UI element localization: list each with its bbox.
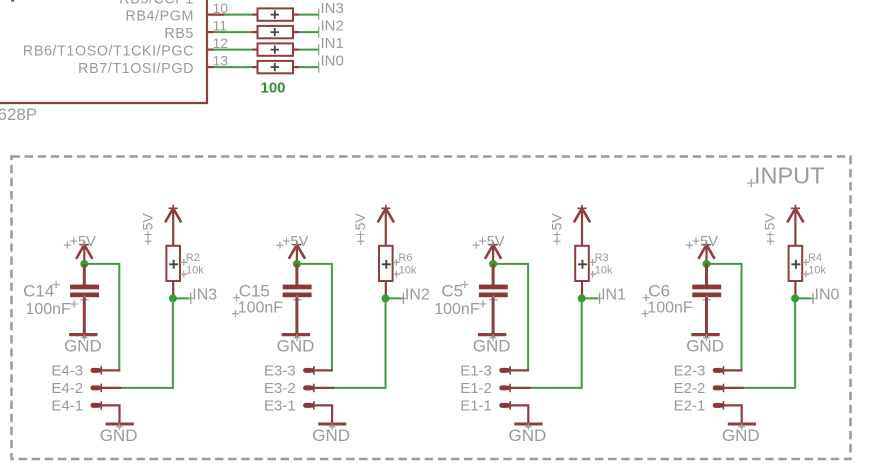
R2 name label	[180, 252, 199, 266]
IC pin name RB5	[164, 26, 194, 42]
connector pin E3-1	[303, 401, 317, 410]
svg-text:RB6/T1OSO/T1CKI/PGC: RB6/T1OSO/T1CKI/PGC	[23, 43, 194, 59]
capacitor C5 top lead	[492, 264, 495, 285]
+5V label text (over C14)	[64, 234, 96, 250]
svg-text:E3-2: E3-2	[264, 380, 296, 397]
connector pin label E1-3	[460, 363, 492, 380]
IC pin stub 13	[207, 66, 214, 68]
resistor lead right row 3	[293, 48, 299, 50]
capacitor C6 bottom lead	[705, 297, 708, 338]
svg-text:10k: 10k	[808, 264, 826, 276]
+5V supply symbol (over C14)	[76, 241, 92, 264]
svg-text:IN1: IN1	[321, 35, 344, 52]
svg-text:GND: GND	[312, 426, 350, 445]
connector pin label E2-3	[674, 363, 706, 380]
svg-text:RB7/T1OSI/PGD: RB7/T1OSI/PGD	[78, 61, 194, 77]
svg-text:C6: C6	[648, 281, 670, 300]
net label IN0	[815, 287, 840, 304]
ground label under E2-1	[722, 426, 760, 445]
svg-text:IN0: IN0	[815, 287, 840, 304]
wire stub to label IN3	[299, 14, 319, 16]
resistor lead right row 2	[293, 31, 299, 33]
capacitor C6 plates	[692, 285, 721, 298]
+5V label text (over C15)	[277, 234, 309, 250]
R4 top lead	[794, 208, 796, 245]
pin number 13	[213, 53, 229, 69]
+5V supply symbol (over C15)	[289, 241, 305, 264]
svg-text:GND: GND	[473, 336, 511, 355]
capacitor C15 top lead	[295, 264, 298, 285]
svg-text:GND: GND	[509, 426, 547, 445]
svg-text:IN3: IN3	[321, 0, 344, 17]
svg-text:IN1: IN1	[601, 287, 626, 304]
connector pin E1-2	[499, 384, 513, 393]
IC pin stub 10	[207, 14, 225, 16]
svg-text:100nF: 100nF	[238, 300, 284, 317]
svg-text:E2-3: E2-3	[674, 363, 706, 380]
net label tick IN2	[401, 293, 406, 304]
+5V label text rotated (over R4)	[762, 213, 778, 245]
svg-text:100: 100	[261, 80, 286, 97]
C15 value 100nF	[232, 300, 283, 318]
+5V label text rotated (over R3)	[548, 213, 564, 245]
IC pin name RB3/CCP1	[119, 0, 194, 7]
svg-text:C5: C5	[441, 282, 463, 301]
svg-text:R3: R3	[595, 252, 609, 264]
svg-text:E3-1: E3-1	[264, 398, 296, 415]
+5V label text (over C6)	[686, 234, 718, 250]
svg-text:C14: C14	[23, 282, 54, 301]
net wire IN1 stub	[582, 297, 600, 299]
wire IN0 junction to E2-2	[743, 298, 795, 388]
svg-text:+5V: +5V	[692, 234, 719, 250]
connector pin label E3-1	[264, 398, 296, 415]
resistor lead right row 1	[293, 14, 299, 16]
R3 value 10k	[589, 264, 613, 277]
IC U1 name 628P (partially cut)	[0, 105, 37, 124]
connector pin label E1-2	[460, 380, 492, 397]
pin E2-2 lead	[724, 387, 744, 389]
capacitor C6 top lead	[705, 264, 708, 285]
INPUT title	[754, 162, 825, 188]
INPUT title origin cross	[747, 179, 755, 187]
wire net IN3 from IC to resistor	[225, 14, 253, 16]
connector pin label E2-2	[674, 380, 706, 397]
svg-text:10k: 10k	[399, 264, 417, 276]
+5V supply symbol (over R2)	[165, 205, 181, 223]
net label tick IN3	[188, 293, 193, 304]
resistor 100 ohm body row 4	[258, 61, 294, 73]
screen artifact dot top-left	[11, 0, 14, 2]
pin E1-2 lead	[510, 387, 530, 389]
R3 top lead	[581, 208, 583, 245]
IC pin name RB4/PGM	[125, 8, 194, 24]
+5V supply symbol (over C6)	[698, 241, 714, 264]
capacitor C14 bottom lead	[83, 297, 86, 338]
C15 name label	[233, 281, 270, 301]
R4 value 10k	[803, 264, 827, 277]
resistor value 100	[261, 80, 286, 97]
connector pin label E2-1	[674, 398, 706, 415]
C14 value 100nF	[25, 300, 77, 318]
net wire IN2 stub	[386, 297, 404, 299]
svg-text:E4-3: E4-3	[51, 363, 83, 380]
net label IN3	[192, 287, 217, 304]
svg-text:R4: R4	[808, 252, 822, 264]
svg-text:E4-1: E4-1	[51, 398, 83, 415]
capacitor C15 plates	[283, 285, 312, 298]
net wire IN3 stub	[173, 297, 191, 299]
junction dot IN1	[578, 294, 586, 302]
svg-text:100nF: 100nF	[647, 300, 693, 317]
R6 value 10k	[393, 264, 417, 277]
capacitor C15 origin cross	[293, 296, 302, 305]
connector pin E1-3	[499, 366, 513, 375]
INPUT region dashed frame	[12, 157, 851, 460]
svg-text:+5V: +5V	[282, 234, 309, 250]
+5V supply symbol (over R3)	[574, 205, 590, 223]
resistor lead left row 2	[252, 31, 258, 33]
junction dot IN0	[791, 294, 799, 302]
svg-text:+5V: +5V	[140, 213, 156, 239]
svg-text:100nF: 100nF	[25, 301, 71, 318]
+5V label text (over C5)	[473, 234, 505, 250]
R2 value 10k	[180, 264, 204, 277]
capacitor C14 plates	[70, 285, 99, 298]
wire IN2 junction to E3-2	[333, 298, 385, 388]
ground symbol under E4-1	[106, 423, 134, 430]
resistor lead right row 4	[293, 66, 299, 68]
svg-text:+5V: +5V	[478, 234, 505, 250]
ground label under C5	[473, 336, 511, 355]
svg-text:R2: R2	[186, 252, 200, 264]
resistor 100 ohm body row 3	[258, 43, 294, 55]
pin E1-1 lead to ground	[510, 405, 528, 427]
+5V supply symbol (over C5)	[485, 241, 501, 264]
capacitor C5 origin cross	[489, 296, 498, 305]
C5 name label	[441, 281, 468, 301]
IC pin stub 11	[207, 31, 214, 33]
ground symbol under C5	[478, 335, 506, 342]
junction dot +5V (C15)	[293, 260, 301, 268]
svg-text:E2-2: E2-2	[674, 380, 706, 397]
pin E3-3 lead	[314, 369, 333, 371]
svg-text:GND: GND	[686, 336, 724, 355]
resistor R3 body	[575, 246, 589, 281]
connector pin label E4-1	[51, 398, 83, 415]
net label tick IN1	[318, 44, 320, 55]
net wire IN0 stub	[795, 297, 813, 299]
svg-text:10k: 10k	[595, 264, 613, 276]
R4 bottom lead	[794, 281, 796, 298]
ground label under E4-1	[100, 426, 138, 445]
ground symbol under E2-1	[728, 423, 756, 430]
wire +5V junction to E3-3	[297, 264, 332, 371]
svg-text:C15: C15	[239, 281, 270, 300]
net label IN2	[321, 18, 344, 35]
ground label under E3-1	[312, 426, 350, 445]
net label IN0	[321, 53, 344, 70]
net label tick IN0	[318, 62, 320, 73]
pin number 12	[213, 35, 229, 51]
C5 value 100nF	[434, 300, 486, 318]
capacitor C6 origin cross	[703, 296, 712, 305]
R2 top lead	[172, 208, 174, 245]
connector pin label E1-1	[460, 398, 492, 415]
IC pin name RB6/T1OSO/T1CKI/PGC	[23, 43, 194, 59]
ground symbol under E3-1	[318, 423, 346, 430]
svg-text:GND: GND	[722, 426, 760, 445]
wire stub to label IN2	[299, 31, 319, 33]
svg-text:RB4/PGM: RB4/PGM	[125, 8, 194, 24]
pin E1-3 lead	[510, 369, 529, 371]
capacitor C15 bottom lead	[295, 297, 298, 338]
wire IN1 junction to E1-2	[529, 298, 581, 388]
wire net IN1 from IC to resistor	[214, 49, 253, 51]
pin E2-3 lead	[724, 369, 743, 371]
resistor R6 body	[379, 246, 393, 281]
R3 name label	[589, 252, 608, 266]
svg-text:R6: R6	[398, 252, 412, 264]
pin E3-2 lead	[314, 387, 334, 389]
svg-text:628P: 628P	[0, 105, 37, 124]
R6 bottom lead	[385, 281, 387, 298]
svg-text:10k: 10k	[186, 264, 204, 276]
junction dot IN2	[382, 294, 390, 302]
wire +5V junction to E4-3	[84, 264, 119, 371]
+5V supply symbol (over R6)	[378, 205, 394, 223]
resistor 100 ohm body row 1	[258, 8, 294, 20]
junction dot +5V (C14)	[80, 260, 88, 268]
capacitor C14 top lead	[83, 264, 86, 285]
junction dot +5V (C6)	[703, 260, 711, 268]
+5V label text rotated (over R6)	[352, 213, 368, 245]
svg-text:+5V: +5V	[548, 213, 564, 239]
ground label under E1-1	[509, 426, 547, 445]
svg-text:IN2: IN2	[321, 18, 344, 35]
connector pin label E3-2	[264, 380, 296, 397]
connector pin E3-2	[303, 384, 317, 393]
IC pin stub 12	[207, 48, 214, 50]
connector pin E4-2	[91, 384, 105, 393]
wire +5V junction to E1-3	[493, 264, 528, 371]
net label tick IN0	[810, 293, 815, 304]
wire stub to label IN0	[299, 66, 319, 68]
connector pin E4-1	[91, 401, 105, 410]
R3 bottom lead	[581, 281, 583, 298]
capacitor C14 origin cross	[80, 296, 89, 305]
svg-text:E4-2: E4-2	[51, 380, 83, 397]
connector pin E2-3	[713, 366, 727, 375]
net label tick IN2	[318, 27, 320, 38]
ground symbol under C14	[69, 335, 97, 342]
C6 value 100nF	[642, 300, 693, 318]
resistor lead left row 1	[252, 14, 258, 16]
pin E4-3 lead	[101, 369, 120, 371]
connector pin E2-2	[713, 384, 727, 393]
svg-text:IN0: IN0	[321, 53, 344, 70]
net label IN3	[321, 0, 344, 17]
pin number 10	[213, 0, 229, 16]
connector pin label E4-2	[51, 380, 83, 397]
svg-text:+5V: +5V	[352, 213, 368, 239]
C14 name label	[23, 281, 60, 301]
svg-text:+5V: +5V	[70, 234, 97, 250]
IC pin name RB7/T1OSI/PGD	[78, 61, 194, 77]
wire net IN0 from IC to resistor	[214, 66, 253, 68]
ground symbol under E1-1	[514, 423, 542, 430]
connector pin label E3-3	[264, 363, 296, 380]
net label IN1	[321, 35, 344, 52]
resistor 100 ohm body row 2	[258, 26, 294, 38]
svg-text:E3-3: E3-3	[264, 363, 296, 380]
ground label under C6	[686, 336, 724, 355]
svg-text:RB5: RB5	[164, 26, 194, 42]
svg-text:E1-1: E1-1	[460, 398, 492, 415]
resistor lead left row 4	[252, 66, 258, 68]
ground symbol under C6	[691, 335, 719, 342]
wire IN3 junction to E4-2	[121, 298, 173, 388]
svg-text:RB3/CCP1: RB3/CCP1	[119, 0, 194, 7]
svg-text:IN3: IN3	[192, 287, 217, 304]
net label tick IN1	[597, 293, 602, 304]
connector pin label E4-3	[51, 363, 83, 380]
connector pin E4-3	[91, 366, 105, 375]
pin E4-1 lead to ground	[101, 405, 119, 427]
pin E3-1 lead to ground	[314, 405, 332, 427]
ground label under C14	[64, 336, 102, 355]
svg-text:+5V: +5V	[762, 213, 778, 239]
resistor lead left row 3	[252, 48, 258, 50]
R6 top lead	[385, 208, 387, 245]
R2 bottom lead	[172, 281, 174, 298]
ground symbol under C15	[282, 335, 310, 342]
+5V label text rotated (over R2)	[140, 213, 156, 245]
svg-text:GND: GND	[100, 426, 138, 445]
C6 name label	[643, 281, 671, 301]
capacitor C5 bottom lead	[492, 297, 495, 338]
capacitor C5 plates	[479, 285, 508, 298]
svg-text:GND: GND	[64, 336, 102, 355]
svg-text:GND: GND	[277, 336, 315, 355]
R4 name label	[803, 252, 822, 266]
+5V supply symbol (over R4)	[787, 205, 803, 223]
svg-text:IN2: IN2	[405, 287, 430, 304]
connector pin E1-1	[499, 401, 513, 410]
net label tick IN3	[318, 9, 320, 20]
pin E4-2 lead	[101, 387, 121, 389]
connector pin E2-1	[713, 401, 727, 410]
svg-text:E2-1: E2-1	[674, 398, 706, 415]
junction dot IN3	[169, 294, 177, 302]
net label IN1	[601, 287, 626, 304]
svg-text:E1-3: E1-3	[460, 363, 492, 380]
pin E2-1 lead to ground	[724, 405, 742, 427]
wire net IN2 from IC to resistor	[214, 31, 253, 33]
svg-text:100nF: 100nF	[434, 301, 480, 318]
IC U1 outline (right edge and bottom edge)	[0, 0, 207, 103]
pin number 11	[213, 18, 228, 34]
R6 name label	[393, 252, 412, 266]
resistor R2 body	[166, 246, 180, 281]
wire +5V junction to E2-3	[707, 264, 742, 371]
svg-text:INPUT: INPUT	[754, 162, 825, 188]
ground label under C15	[277, 336, 315, 355]
junction dot +5V (C5)	[489, 260, 497, 268]
resistor R4 body	[789, 246, 803, 281]
net label IN2	[405, 287, 430, 304]
svg-text:E1-2: E1-2	[460, 380, 492, 397]
wire stub to label IN1	[299, 49, 319, 51]
connector pin E3-3	[303, 366, 317, 375]
